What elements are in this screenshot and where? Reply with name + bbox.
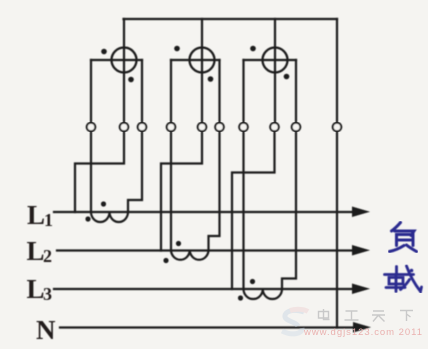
watermark 电工天下 (gray) [319,309,414,322]
dot CT3 secondary [238,295,243,300]
terminal circles [87,123,342,132]
node terminal 5 [198,123,207,132]
wire: element1 current coil line [91,59,142,61]
node terminal 6 [215,123,224,132]
wire: element2 voltage drop [201,19,203,123]
svg-text:L: L [27,274,45,304]
node terminal 3 [138,123,147,132]
wire: T9 return to CT3 S2 [282,131,296,289]
meter element 1 voltage coil circle [112,48,137,73]
svg-text:3: 3 [43,284,52,304]
wire: element1 right drop to terminal3 [141,60,143,123]
dot element2 upper [174,46,180,52]
wire: element3 right drop [295,60,297,123]
node terminal 10 [333,123,342,132]
arrow L2 [352,245,370,256]
dot CT1 secondary [85,216,90,221]
phase line L1 [54,211,353,213]
svg-text:L: L [27,236,45,266]
arrow L3 [352,284,370,295]
wire: top voltage bus [124,18,338,20]
wire: T6 return to CT2 S2 [209,131,220,251]
天 [372,311,385,322]
电 [319,312,329,319]
svg-text:1: 1 [44,210,53,230]
wire: T2 voltage tap phase1 [75,131,124,212]
arrows to load [352,207,371,333]
下 [400,311,413,322]
transformer CT3 secondary winding [244,289,283,299]
dot element3 upper [250,46,256,52]
transformer CT2 secondary winding [171,251,209,260]
wire: T3 return to CT1 S2 [128,131,142,212]
node terminal 9 [292,123,301,132]
meter element 2 voltage coil circle [190,48,215,73]
wire: element3 left drop [242,60,244,123]
wire: T7 down to CT3 [242,131,244,289]
wire: T5 voltage tap phase2 [161,131,202,251]
transformer CT1 secondary winding [91,212,128,222]
wire: T8 voltage tap phase3 [232,131,275,289]
load text 负 (blue) [390,223,417,252]
svg-text:www.dgjs123.com 2011: www.dgjs123.com 2011 [303,327,422,338]
dot element1 upper [101,49,107,55]
arrow L1 [352,207,370,218]
load text 载 (blue) [385,266,422,292]
labels [27,200,57,345]
wire: right common drop to N through terminal10 [336,19,338,123]
wire: T4 down to CT2 [170,131,172,251]
svg-text:2: 2 [43,246,52,266]
phase line L2 [57,249,353,251]
wire: T1 down to CT1 [90,131,92,212]
dot element2 lower [208,76,214,82]
svg-text:N: N [36,315,56,345]
svg-text:L: L [27,200,45,230]
dot CT2 secondary [163,258,168,263]
arrow N [353,322,371,333]
watermark S logo [282,309,308,334]
wire: element3 voltage drop [274,19,276,123]
wire: element1 left drop to terminal1 [90,60,92,123]
node terminal 1 [87,123,96,132]
polarity dots [85,46,289,301]
node terminal 2 [120,123,129,132]
wire: element2 left drop [170,60,172,123]
工 [345,311,359,320]
node terminal 8 [270,123,279,132]
dot CT1 primary [101,201,106,206]
neutral line N [60,326,354,328]
wire: element3 current coil line [244,59,297,61]
dot element1 lower [128,77,134,83]
meter element 3 voltage coil circle [263,48,288,73]
dot CT3 primary [250,279,255,284]
wire: element2 current coil line [171,59,220,61]
dot CT2 primary [176,241,181,246]
node terminal 7 [239,123,248,132]
wire: element2 right drop [218,60,220,123]
dot element3 lower [284,74,290,80]
wire: element1 voltage drop bus-to-terminal2 [123,19,125,123]
node terminal 4 [167,123,176,132]
phase line L3 [54,288,353,290]
